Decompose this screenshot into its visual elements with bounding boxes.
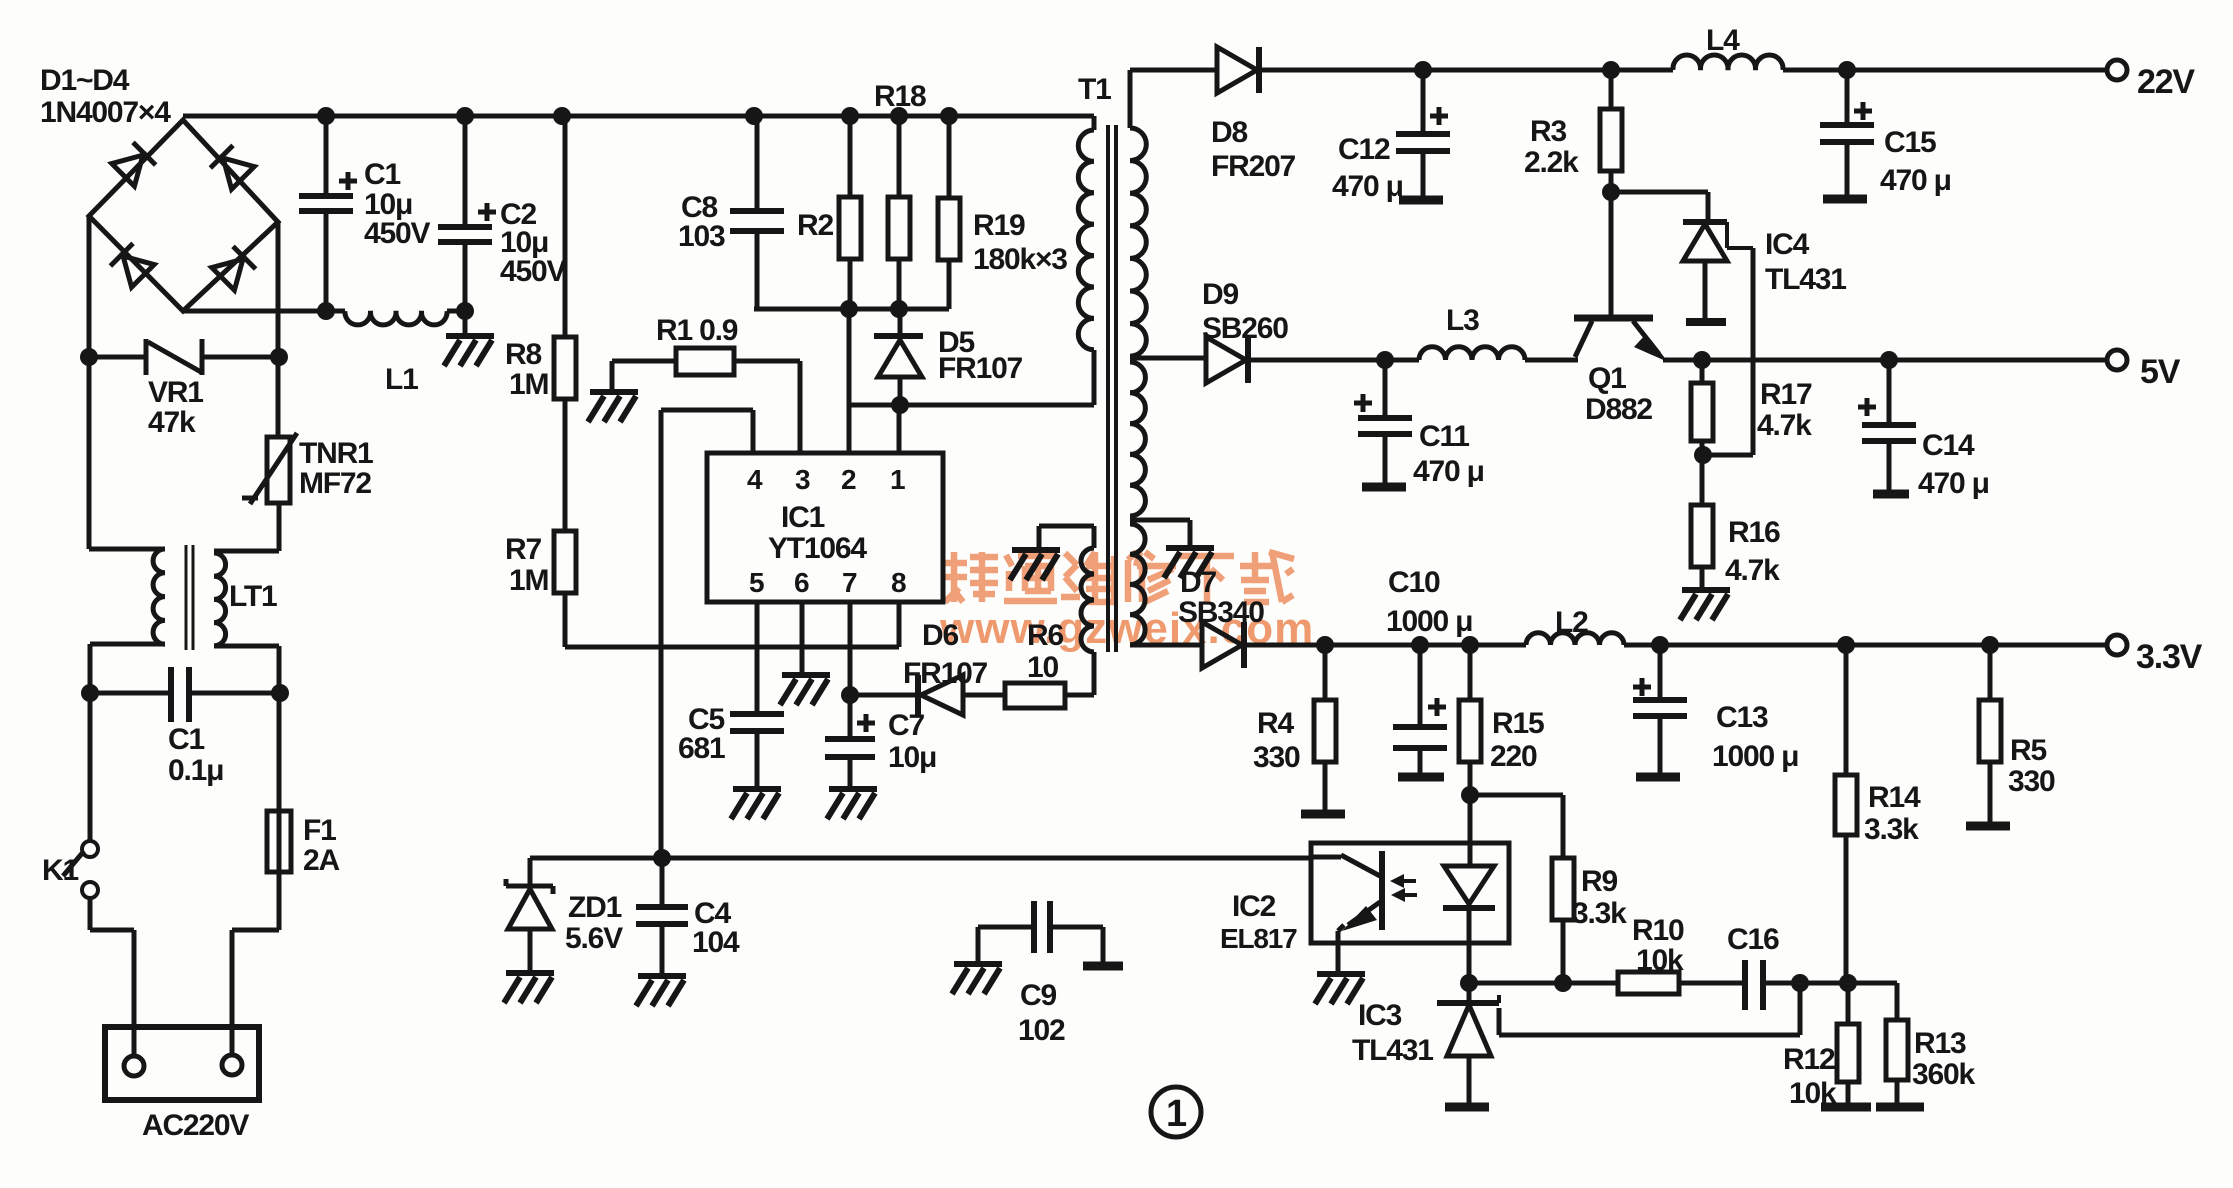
svg-text:R9: R9: [1581, 865, 1617, 898]
wire to switch: [88, 693, 93, 841]
svg-text:FR207: FR207: [1211, 150, 1296, 183]
node C16 right: [1791, 974, 1809, 992]
svg-text:330: 330: [1253, 741, 1300, 774]
svg-text:TL431: TL431: [1352, 1034, 1433, 1067]
svg-text:1M: 1M: [509, 564, 548, 597]
capacitor C14 470u: [1887, 360, 1892, 490]
diode D8 FR207: [1217, 47, 1257, 93]
svg-text:R15: R15: [1492, 707, 1544, 740]
wire switch to plug: [90, 898, 134, 1057]
svg-text:R19: R19: [973, 209, 1025, 242]
svg-text:D1~D4: D1~D4: [40, 64, 130, 97]
ground at R16: [1680, 590, 1730, 620]
transformer T1 core: [1108, 125, 1116, 652]
svg-text:47k: 47k: [148, 406, 196, 439]
svg-text:0.1μ: 0.1μ: [168, 754, 223, 787]
node R8 top: [553, 107, 571, 125]
svg-text:22V: 22V: [2137, 63, 2195, 101]
node D5 anode: [891, 396, 909, 414]
wire LT1 bottom left: [90, 644, 165, 693]
wire R7 to pin8: [565, 593, 899, 647]
svg-text:220: 220: [1490, 740, 1537, 773]
svg-text:SB260: SB260: [1202, 312, 1288, 345]
fuse F1 2A: [277, 693, 282, 930]
AC plug box AC220V: [105, 1027, 259, 1100]
svg-text:SB340: SB340: [1178, 596, 1264, 629]
svg-text:C9: C9: [1020, 979, 1056, 1012]
resistor R17 4.7k: [1700, 360, 1705, 505]
wire 3.3V rail: [1130, 643, 2108, 648]
svg-text:L2: L2: [1555, 606, 1588, 639]
capacitor C13 1000u: [1658, 645, 1663, 773]
svg-text:330: 330: [2008, 765, 2055, 798]
svg-text:D8: D8: [1211, 116, 1247, 149]
terminal 5V: [2107, 350, 2127, 370]
wire aux winding top to ground: [1039, 526, 1094, 548]
diode D7 SB340: [1202, 622, 1242, 668]
capacitor C2 10u 450V: [463, 116, 468, 311]
node R12 top: [1839, 974, 1857, 992]
svg-text:R7: R7: [505, 533, 541, 566]
node C1 bottom: [317, 302, 335, 320]
svg-text:4.7k: 4.7k: [1725, 554, 1780, 587]
svg-text:L1: L1: [385, 363, 418, 396]
transformer T1 secondary winding mid: [1130, 362, 1145, 516]
svg-text:2: 2: [841, 464, 856, 495]
svg-text:1M: 1M: [509, 368, 548, 401]
svg-text:R3: R3: [1530, 115, 1566, 148]
node R18 top: [890, 107, 908, 125]
resistor R7 1M: [554, 531, 576, 593]
svg-text:4.7k: 4.7k: [1757, 409, 1812, 442]
svg-text:1000 μ: 1000 μ: [1386, 605, 1472, 638]
wire R3 node to IC4: [1611, 192, 1708, 222]
node X-cap right: [271, 684, 289, 702]
svg-text:L4: L4: [1706, 24, 1740, 57]
inductor L3: [1419, 347, 1525, 360]
bridge rectifier D1-D4 diamond: [89, 120, 278, 311]
capacitor C12 470u: [1421, 70, 1426, 196]
terminal 22V: [2107, 60, 2127, 80]
thermistor TNR1 MF72: [267, 437, 290, 503]
wire bridge minus bus: [183, 309, 465, 314]
svg-text:5V: 5V: [2140, 353, 2181, 391]
shunt regulator IC3 TL431: [1437, 1000, 1499, 1006]
svg-text:103: 103: [678, 220, 725, 253]
svg-text:2A: 2A: [303, 844, 339, 877]
capacitor C8 103: [755, 116, 760, 309]
svg-text:C11: C11: [1419, 420, 1469, 453]
varistor VR1: [89, 355, 279, 360]
svg-text:D6: D6: [922, 619, 958, 652]
svg-text:6: 6: [794, 567, 809, 598]
wire snubber bottom bus: [754, 307, 949, 312]
node D5 cathode bus R2: [840, 300, 858, 318]
ground at R5: [1966, 822, 2010, 831]
node C2 top: [456, 107, 474, 125]
resistor R9 3.3k: [1552, 858, 1574, 920]
node D5 cathode bus: [890, 300, 908, 318]
transformer T1 secondary winding bottom: [1130, 524, 1145, 645]
ground at ZD1: [504, 973, 554, 1003]
svg-text:R17: R17: [1760, 378, 1812, 411]
svg-text:3: 3: [795, 464, 810, 495]
resistor R1 0.9: [676, 348, 734, 375]
diode D9 SB260: [1206, 337, 1246, 383]
node C12 top: [1414, 61, 1432, 79]
svg-text:YT1064: YT1064: [768, 532, 867, 565]
svg-text:1000 μ: 1000 μ: [1712, 740, 1798, 773]
capacitor C10 1000u: [1418, 645, 1423, 773]
svg-text:K1: K1: [42, 854, 78, 887]
svg-text:R4: R4: [1257, 707, 1294, 740]
line filter LT1 left winding: [153, 549, 165, 644]
svg-text:C1: C1: [168, 723, 204, 756]
svg-text:3.3V: 3.3V: [2136, 638, 2203, 676]
wire R15 node into optocoupler LED: [1468, 795, 1473, 866]
zener ZD1 5.6V: [528, 858, 533, 971]
resistor R8 1M: [563, 116, 568, 531]
resistor R18: [897, 116, 902, 309]
svg-text:R14: R14: [1868, 781, 1921, 814]
line filter LT1 core: [186, 545, 193, 650]
svg-text:450V: 450V: [364, 217, 430, 250]
wire 5V rail: [1130, 358, 2108, 360]
svg-text:1: 1: [1166, 1093, 1187, 1135]
svg-text:C1: C1: [364, 158, 400, 191]
svg-text:MF72: MF72: [299, 467, 371, 500]
svg-text:470 μ: 470 μ: [1918, 467, 1989, 500]
node C15 top: [1838, 61, 1856, 79]
svg-text:3.3k: 3.3k: [1864, 813, 1919, 846]
svg-text:FR107: FR107: [903, 657, 988, 690]
node R15 top: [1461, 636, 1479, 654]
capacitor C16: [1745, 960, 1763, 1010]
ground at C12: [1399, 196, 1443, 205]
optocoupler IC2 phototransistor: [1311, 855, 1341, 860]
wire main HV bus: [183, 114, 1094, 119]
resistor R13 360k: [1886, 1020, 1908, 1080]
capacitor C7 10u: [848, 695, 853, 787]
ground at pin6: [800, 602, 805, 673]
transformer T1 aux winding: [1081, 548, 1094, 652]
svg-text:10μ: 10μ: [888, 741, 936, 774]
resistor R16 4.7k: [1691, 505, 1713, 567]
inductor L4: [1673, 55, 1783, 70]
ground at R4: [1301, 810, 1345, 819]
svg-text:10: 10: [1027, 651, 1058, 684]
wire fuse to plug: [232, 930, 279, 1056]
svg-text:470 μ: 470 μ: [1880, 164, 1951, 197]
node left AC top: [80, 348, 98, 366]
svg-text:2.2k: 2.2k: [1524, 146, 1579, 179]
svg-text:IC3: IC3: [1358, 999, 1402, 1032]
diode D3 (bridge bottom-left): [110, 243, 154, 287]
ground at C4: [636, 976, 686, 1006]
resistor R14 3.3k: [1844, 645, 1849, 983]
svg-text:TL431: TL431: [1765, 263, 1846, 296]
optocoupler IC2 EL817 box: [1311, 843, 1509, 943]
svg-text:R16: R16: [1728, 516, 1780, 549]
svg-text:5: 5: [749, 567, 764, 598]
node R15 bottom: [1461, 786, 1479, 804]
wire LT1 bottom right: [214, 646, 279, 693]
diode D6 FR107: [850, 693, 918, 698]
svg-text:450V: 450V: [500, 255, 566, 288]
resistor R15 220: [1468, 645, 1473, 795]
capacitor C15 470u: [1845, 70, 1850, 195]
svg-text:D9: D9: [1202, 278, 1238, 311]
node LED cathode / R10 line: [1460, 974, 1478, 992]
svg-text:IC4: IC4: [1765, 228, 1810, 261]
svg-text:TNR1: TNR1: [299, 437, 373, 470]
transformer T1 secondary tap to ground: [1130, 520, 1190, 546]
svg-text:R5: R5: [2010, 734, 2046, 767]
node R4 top: [1316, 636, 1334, 654]
svg-text:F1: F1: [303, 814, 336, 847]
node C4 top: [653, 849, 671, 867]
resistor R12 10k: [1846, 983, 1851, 1103]
wire pin2 to bus: [847, 309, 852, 453]
node R19 top: [940, 107, 958, 125]
resistor R4 330: [1323, 645, 1328, 810]
node X-cap left: [81, 684, 99, 702]
optocoupler IC2 LED: [1444, 866, 1494, 904]
ground at C5: [731, 789, 781, 819]
svg-text:R1 0.9: R1 0.9: [656, 314, 738, 347]
diode D2 (bridge top-right): [210, 145, 254, 189]
resistor R19 180k x3: [947, 116, 952, 309]
svg-text:3.3k: 3.3k: [1572, 897, 1627, 930]
svg-text:R12: R12: [1783, 1043, 1835, 1076]
node R3 bottom: [1602, 183, 1620, 201]
svg-text:C13: C13: [1716, 701, 1768, 734]
svg-text:D7: D7: [1180, 566, 1216, 599]
wire bridge right leg: [214, 222, 279, 551]
wire IC4 ref to R17/R16: [1703, 248, 1753, 455]
ground at C9 left: [952, 964, 1002, 994]
svg-text:10k: 10k: [1636, 944, 1684, 977]
node C8 top: [745, 107, 763, 125]
wire R1 left to ground: [612, 361, 676, 390]
ground at C15: [1823, 195, 1867, 204]
svg-text:ZD1: ZD1: [568, 891, 622, 924]
svg-text:R6: R6: [1027, 619, 1063, 652]
svg-text:R2: R2: [797, 209, 833, 242]
svg-text:Q1: Q1: [1588, 362, 1626, 395]
wire pin7: [848, 602, 853, 695]
svg-text:LT1: LT1: [229, 580, 277, 613]
node R5 top: [1981, 636, 1999, 654]
diode D1 (bridge top-left): [112, 142, 156, 186]
transformer T1 primary winding: [1092, 116, 1097, 130]
svg-text:AC220V: AC220V: [142, 1109, 249, 1142]
node C14 top: [1880, 351, 1898, 369]
ground at C7: [827, 789, 877, 819]
svg-text:C10: C10: [1388, 566, 1440, 599]
svg-text:C16: C16: [1727, 923, 1779, 956]
wire feedback to optocoupler: [530, 856, 1311, 861]
svg-text:8: 8: [891, 567, 906, 598]
resistor R3 2.2k: [1609, 70, 1614, 316]
wire D5 node to transformer: [849, 350, 1094, 405]
resistor R2: [848, 116, 853, 309]
figure number 1: [1151, 1087, 1201, 1137]
ground at C11: [1362, 483, 1406, 492]
svg-text:470 μ: 470 μ: [1413, 455, 1484, 488]
svg-text:D882: D882: [1585, 393, 1652, 426]
wire R1 right to pin3: [734, 361, 800, 453]
node R17 top: [1693, 351, 1711, 369]
resistor R5 330: [1988, 645, 1993, 822]
svg-text:1: 1: [890, 464, 905, 495]
line filter LT1 right winding: [214, 553, 226, 646]
svg-text:L3: L3: [1446, 304, 1479, 337]
svg-text:180k×3: 180k×3: [973, 243, 1067, 276]
node pin7: [841, 686, 859, 704]
ground at IC2 emitter: [1315, 974, 1365, 1004]
shunt regulator IC4 TL431: [1683, 219, 1727, 225]
capacitor C4 104: [660, 858, 665, 974]
node R14 top: [1837, 636, 1855, 654]
ground at C13: [1636, 773, 1680, 782]
node L1 right: [456, 302, 474, 320]
svg-text:R8: R8: [505, 338, 541, 371]
svg-text:T1: T1: [1078, 73, 1111, 106]
svg-text:IC2: IC2: [1232, 890, 1276, 923]
node C13 top: [1651, 636, 1669, 654]
ground at R12: [1821, 1103, 1871, 1112]
transformer T1 secondary winding top: [1128, 70, 1133, 128]
capacitor C1 10u 450V: [324, 116, 329, 311]
diode D4 (bridge bottom-right): [212, 246, 256, 290]
node R9 bottom: [1554, 974, 1572, 992]
transistor Q1 D882: [1574, 315, 1653, 322]
wire R6 to aux winding: [1092, 652, 1097, 695]
node R3 top: [1602, 61, 1620, 79]
node C11 top: [1376, 351, 1394, 369]
switch K1: [82, 841, 98, 857]
svg-text:R13: R13: [1914, 1027, 1966, 1060]
IC U1 IC1 YT1064 box: [707, 453, 943, 602]
watermark text: [951, 552, 958, 602]
wire pin1 to D5 node: [897, 405, 902, 453]
node C10 top: [1411, 636, 1429, 654]
terminal 3.3V: [2107, 635, 2127, 655]
svg-text:IC1: IC1: [781, 501, 825, 534]
svg-text:681: 681: [678, 732, 725, 765]
svg-text:C12: C12: [1338, 133, 1390, 166]
ground at L1/C2: [463, 311, 468, 334]
wire fb divider line: [1469, 983, 1897, 1020]
svg-text:R10: R10: [1632, 914, 1684, 947]
wire IC3 ref: [1499, 983, 1800, 1035]
resistor R6 10: [963, 693, 1094, 698]
svg-text:C14: C14: [1922, 429, 1975, 462]
svg-text:5.6V: 5.6V: [565, 922, 623, 955]
capacitor C11 470u: [1383, 360, 1388, 483]
optocoupler IC2 light arrows: [1398, 881, 1417, 895]
svg-text:C15: C15: [1884, 126, 1936, 159]
wire pin4 feedback: [661, 410, 753, 858]
svg-text:FR107: FR107: [938, 352, 1023, 385]
svg-text:1N4007×4: 1N4007×4: [40, 96, 171, 129]
svg-text:EL817: EL817: [1220, 923, 1297, 954]
wire bridge left leg: [89, 216, 165, 549]
svg-text:4: 4: [747, 464, 763, 495]
svg-text:470 μ: 470 μ: [1332, 170, 1403, 203]
capacitor C9 102: [978, 927, 1103, 963]
wire R15 node to R9: [1470, 795, 1563, 858]
svg-text:360k: 360k: [1912, 1058, 1975, 1091]
inductor L1: [345, 311, 447, 325]
svg-text:VR1: VR1: [148, 376, 203, 409]
resistor R10 10k: [1618, 972, 1679, 994]
diode D5 FR107: [898, 309, 903, 405]
node right AC top: [270, 348, 288, 366]
ground at R1: [588, 392, 638, 422]
svg-text:102: 102: [1018, 1014, 1065, 1047]
node C1 top: [317, 107, 335, 125]
svg-text:104: 104: [692, 926, 740, 959]
inductor L2: [1526, 633, 1624, 645]
node R2 top: [841, 107, 859, 125]
ground at R13: [1876, 1103, 1924, 1112]
capacitor C5 681 on pin5: [755, 602, 760, 787]
svg-text:7: 7: [842, 567, 857, 598]
wire 22V rail: [1130, 68, 2108, 73]
ground at C10: [1398, 773, 1444, 782]
ground at C14: [1873, 490, 1909, 499]
capacitor C1 0.1u (X-cap): [90, 691, 279, 696]
node R17 bottom: [1694, 446, 1712, 464]
ground at C9 right: [1083, 962, 1123, 971]
